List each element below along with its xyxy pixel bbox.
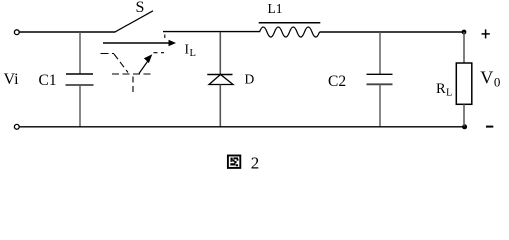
terminal input bottom — [14, 124, 19, 129]
svg-text:R: R — [436, 81, 446, 97]
transistor Q1 emitter dashed link vertical — [164, 35, 166, 39]
label minus — [486, 126, 493, 128]
svg-text:S: S — [136, 0, 145, 16]
svg-text:0: 0 — [494, 75, 501, 90]
svg-text:D: D — [245, 72, 255, 87]
svg-text:2: 2 — [251, 153, 259, 172]
svg-text:L: L — [190, 48, 196, 59]
transistor Q1 base bar — [112, 73, 153, 75]
diode D — [207, 32, 233, 127]
inductor L1 winding — [260, 27, 320, 37]
svg-text:C1: C1 — [39, 72, 57, 89]
svg-text:Vi: Vi — [4, 71, 20, 88]
capacitor C1 — [66, 32, 94, 127]
transistor Q1 base lead down — [132, 77, 134, 93]
terminal input top — [14, 30, 19, 35]
wire top rail left — [20, 31, 115, 33]
svg-text:V: V — [480, 68, 493, 88]
caption figure 2 glyph tu — [228, 156, 240, 168]
transistor Q1 (phantom, dashed) collector lead — [101, 53, 115, 55]
wire top rail middle — [163, 31, 260, 33]
label plus — [482, 29, 490, 38]
svg-text:L: L — [446, 88, 452, 99]
arrow IL — [103, 40, 176, 46]
wire top rail right — [320, 31, 465, 33]
inductor L1 core bar — [259, 22, 321, 24]
svg-text:C2: C2 — [328, 73, 346, 90]
transistor Q1 collector diagonal — [114, 54, 128, 73]
svg-text:L1: L1 — [268, 1, 283, 16]
node bottom right junction — [462, 124, 467, 129]
capacitor C2 — [367, 32, 393, 127]
switch S blade — [115, 11, 153, 32]
resistor RL — [456, 32, 472, 127]
node top right junction — [462, 30, 467, 35]
transistor Q1 emitter with arrow — [139, 54, 152, 73]
transistor Q1 emitter dashed link — [154, 52, 165, 54]
wire bottom rail — [20, 126, 465, 128]
